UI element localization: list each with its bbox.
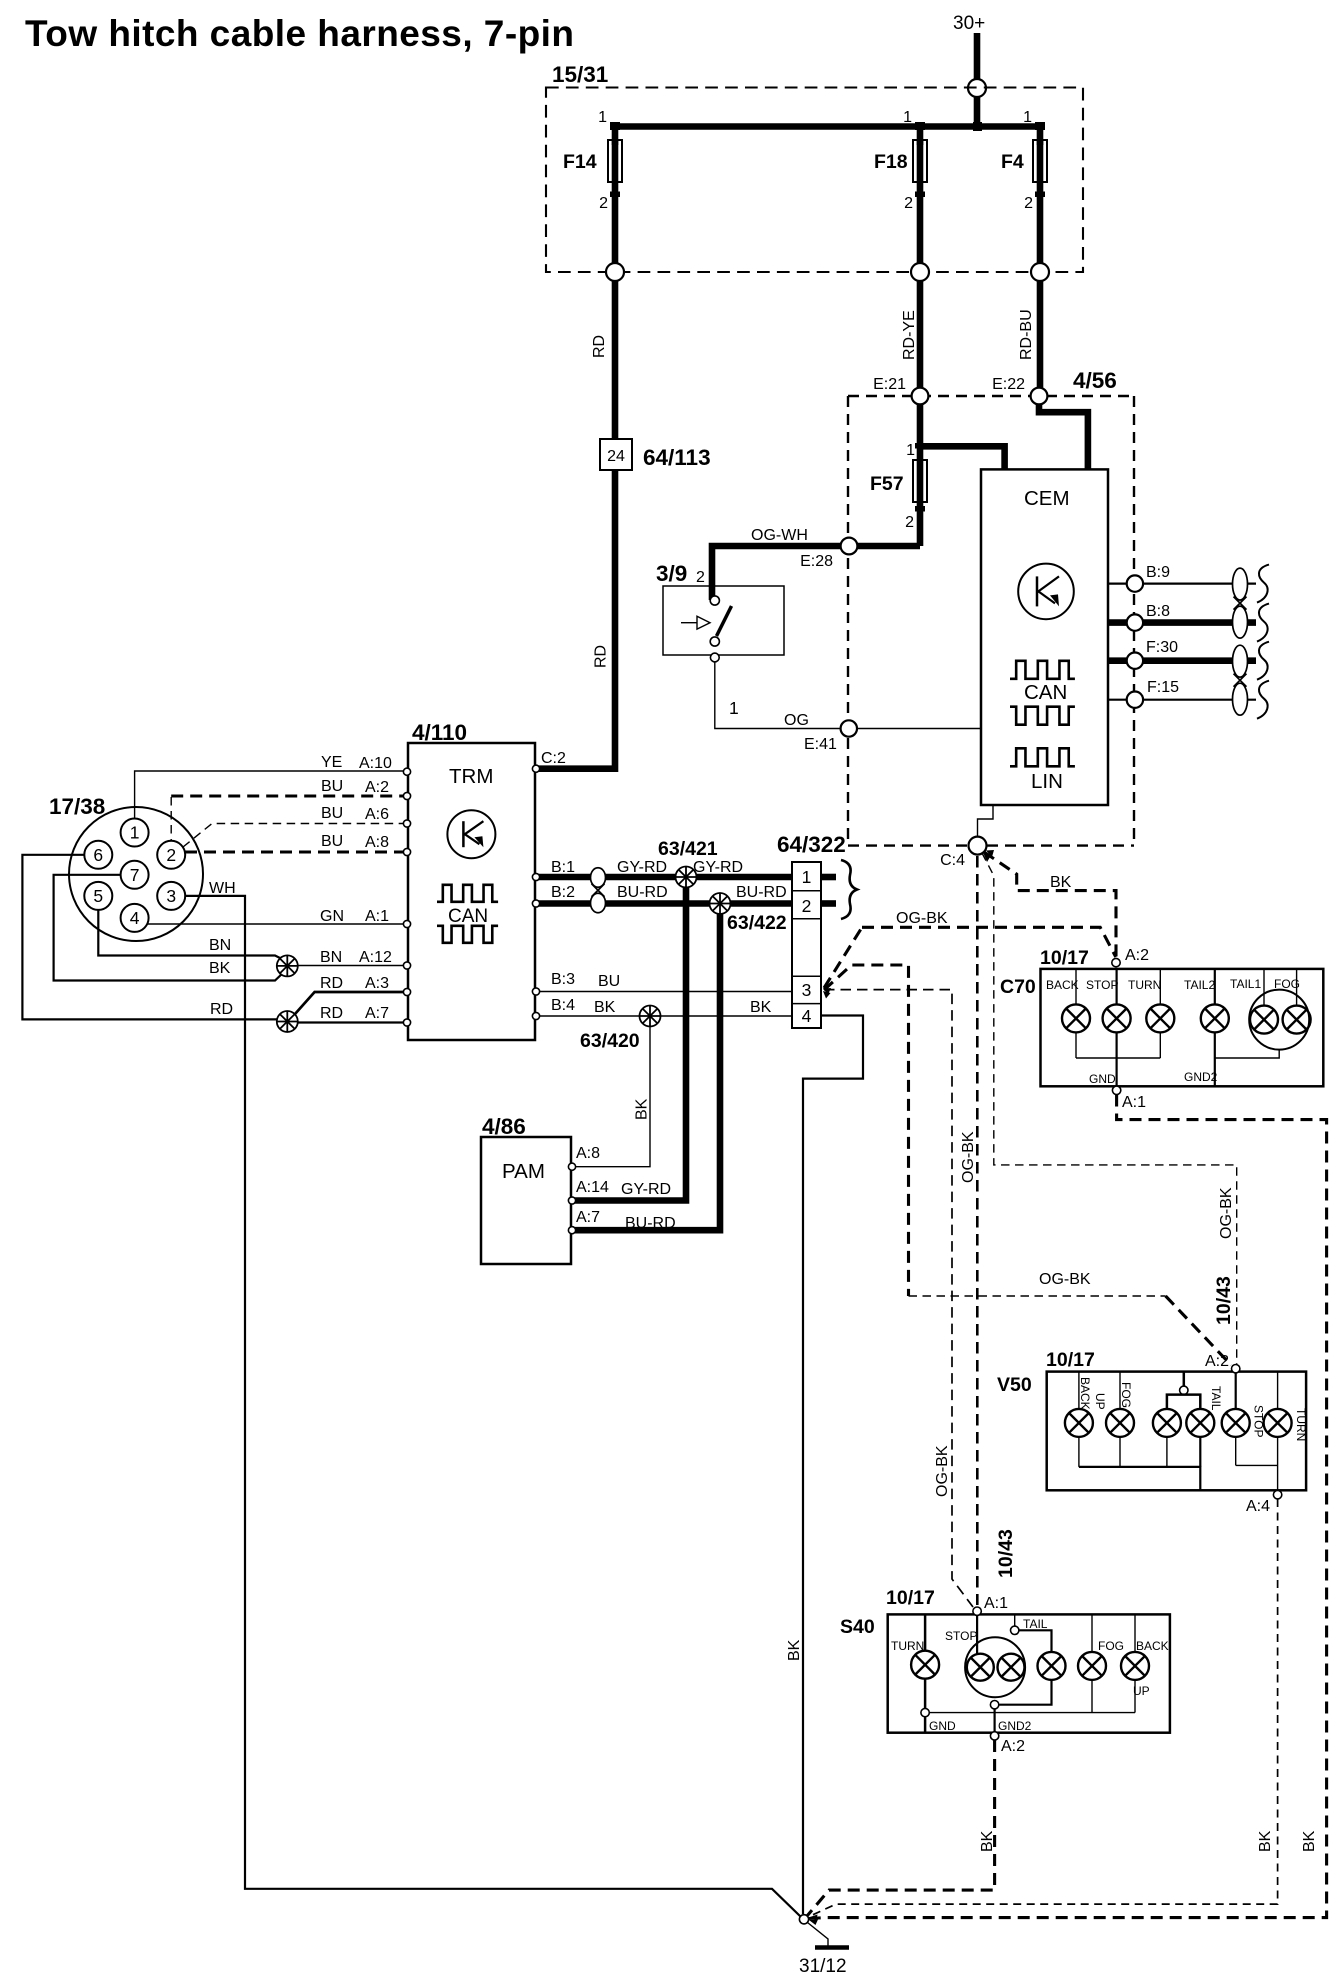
connector 17/38 pin 6 xyxy=(84,841,112,869)
svg-text:1: 1 xyxy=(903,109,912,126)
svg-text:A:8: A:8 xyxy=(365,834,389,851)
junction dot 30+ bus xyxy=(973,122,982,131)
wire RD-YE from F18 xyxy=(917,281,924,396)
svg-text:15/31: 15/31 xyxy=(552,62,608,87)
wire BU B:3 xyxy=(538,991,792,993)
V50 TAIL lamp left xyxy=(1153,1409,1181,1437)
svg-text:B:4: B:4 xyxy=(551,997,575,1014)
svg-text:B:1: B:1 xyxy=(551,859,575,876)
svg-text:RD-BU: RD-BU xyxy=(1018,309,1035,360)
connector 17/38 pin 5 xyxy=(84,882,112,910)
svg-text:GND2: GND2 xyxy=(1184,1070,1218,1084)
C70 dual lamp housing xyxy=(1249,990,1309,1050)
svg-text:OG: OG xyxy=(784,712,809,729)
svg-text:2: 2 xyxy=(696,569,705,586)
wire BN from pin5 xyxy=(98,910,284,960)
svg-text:10/17: 10/17 xyxy=(1046,1349,1095,1371)
fuse F14 pin 1 tick xyxy=(610,122,620,130)
ground junction node xyxy=(799,1915,808,1924)
wire RD-BU from F4 xyxy=(1037,281,1044,396)
S40 TURN lamp xyxy=(911,1651,939,1679)
break symbol B:8 xyxy=(1257,604,1269,642)
C70 TURN lamp lower wire xyxy=(1159,1032,1161,1058)
connector 64/113 box xyxy=(600,439,632,470)
node E:41 xyxy=(841,720,857,736)
svg-text:STOP: STOP xyxy=(945,1629,977,1643)
svg-text:Tow hitch cable harness, 7-pin: Tow hitch cable harness, 7-pin xyxy=(25,13,574,54)
pin C70 A:2 xyxy=(1112,958,1120,966)
node B:8 xyxy=(1127,614,1143,630)
S40 FOG lower wire xyxy=(1091,1680,1093,1713)
pin S40 A:2 xyxy=(990,1732,998,1740)
V50 STOP-TURN join xyxy=(1236,1464,1278,1466)
splice 63/422 xyxy=(710,893,731,914)
arrowheads at ground junction xyxy=(809,1915,818,1921)
C70 TAIL2 GND2 wire xyxy=(1214,1032,1216,1086)
wire RD from 64/113 to TRM C:2 xyxy=(537,470,615,769)
node F18 at 15/31 box bottom xyxy=(911,263,929,281)
wire RD-BU to CEM top xyxy=(1039,404,1088,469)
TRM CAN symbol xyxy=(437,885,498,902)
V50 STOP lower wire xyxy=(1235,1437,1237,1466)
svg-text:F:30: F:30 xyxy=(1146,639,1178,656)
wire BK 63/420 to PAM A:8 xyxy=(573,1027,650,1167)
wire BU to A:8 dashed xyxy=(185,850,405,853)
wire pin3 to S40 A:1 dashed xyxy=(824,990,973,1607)
connector 17/38 pin 3 xyxy=(157,882,185,910)
svg-text:BU-RD: BU-RD xyxy=(625,1215,676,1232)
wire BK B:4 xyxy=(538,1015,792,1017)
V50 TURN lamp xyxy=(1264,1409,1292,1437)
svg-text:3: 3 xyxy=(802,980,812,1000)
break symbol F:30 xyxy=(1257,642,1269,680)
module CEM box xyxy=(981,469,1108,805)
svg-text:F:15: F:15 xyxy=(1147,679,1179,696)
fuse F14 feed wire xyxy=(612,127,619,146)
C70 TURN lamp xyxy=(1146,1004,1174,1032)
pin TRM A:12 xyxy=(403,962,410,969)
splice RD xyxy=(277,1011,298,1032)
svg-text:BK: BK xyxy=(750,999,772,1016)
svg-text:RD: RD xyxy=(320,1005,343,1022)
C70 TAIL1 lamp xyxy=(1250,1006,1278,1034)
C70 TAIL2 lamp wire xyxy=(1214,969,1216,1005)
node 30+ at box 15/31 edge xyxy=(968,79,986,97)
svg-text:TRM: TRM xyxy=(449,765,493,788)
wire BU-RD pin2 tail xyxy=(821,900,836,907)
svg-text:GND2: GND2 xyxy=(998,1719,1032,1733)
svg-text:B:9: B:9 xyxy=(1146,564,1170,581)
svg-text:OG-BK: OG-BK xyxy=(1039,1271,1091,1288)
wire OG-WH xyxy=(712,546,920,600)
S40 STOP housing xyxy=(965,1637,1025,1697)
S40 GND wire to edge xyxy=(924,1717,927,1733)
svg-text:TURN: TURN xyxy=(1128,978,1161,992)
wire BU to A:2 dashed xyxy=(171,794,404,797)
switch 3/9 pin 2 contact xyxy=(710,596,719,605)
switch 3/9 box xyxy=(663,586,784,655)
S40 TAIL lower wire xyxy=(1000,1680,1052,1705)
connector 17/38 pin 7 xyxy=(121,861,149,889)
pin V50 A:2 xyxy=(1232,1365,1240,1373)
svg-text:OG-WH: OG-WH xyxy=(751,527,808,544)
svg-text:BU: BU xyxy=(321,778,343,795)
svg-text:10/43: 10/43 xyxy=(995,1529,1017,1578)
svg-text:BK: BK xyxy=(634,1098,651,1120)
V50 FOG lamp xyxy=(1106,1409,1134,1437)
svg-text:FOG: FOG xyxy=(1098,1639,1124,1653)
svg-text:WH: WH xyxy=(209,880,236,897)
connector 17/38 outline xyxy=(69,807,203,941)
wire CEM F:30 xyxy=(1108,657,1256,664)
svg-text:A:2: A:2 xyxy=(1125,947,1149,964)
svg-text:63/421: 63/421 xyxy=(658,838,718,860)
wire OG from switch pin 1 xyxy=(715,662,841,729)
svg-text:2: 2 xyxy=(599,195,608,212)
svg-text:BN: BN xyxy=(209,937,231,954)
S40 TURN lower wire xyxy=(924,1679,927,1709)
svg-text:TAIL1: TAIL1 xyxy=(1230,977,1261,991)
S40 BACKUP lamp wire xyxy=(1134,1614,1136,1652)
V50 GND bus xyxy=(1079,1467,1200,1490)
svg-text:OG-BK: OG-BK xyxy=(960,1131,977,1183)
svg-text:10/17: 10/17 xyxy=(1040,947,1089,969)
wire pin4 64/322 BK path xyxy=(803,1016,863,1915)
splice 63/420 xyxy=(640,1006,661,1027)
TRM transistor symbol xyxy=(447,810,495,858)
C70 STOP lamp xyxy=(1103,1004,1131,1032)
wire GY-RD 63/421 to PAM A:14 xyxy=(573,888,686,1201)
wire BU-RD B:2 xyxy=(538,900,792,907)
svg-text:4/56: 4/56 xyxy=(1073,368,1117,393)
svg-text:BK: BK xyxy=(1301,1830,1318,1852)
wire RD from F14 xyxy=(612,281,619,439)
svg-text:E:21: E:21 xyxy=(873,376,906,393)
svg-text:F18: F18 xyxy=(874,151,908,173)
svg-text:A:6: A:6 xyxy=(365,806,389,823)
svg-text:GY-RD: GY-RD xyxy=(621,1181,671,1198)
wire BU-RD 63/422 to PAM A:7 xyxy=(573,914,720,1230)
node F:30 xyxy=(1127,653,1143,669)
pin V50 A:4 xyxy=(1273,1491,1281,1499)
svg-text:63/422: 63/422 xyxy=(727,912,787,934)
svg-text:31/12: 31/12 xyxy=(799,1956,847,1977)
node B:9 xyxy=(1127,575,1143,591)
svg-text:3/9: 3/9 xyxy=(656,561,687,586)
svg-text:E:41: E:41 xyxy=(804,736,837,753)
wire OG from E:41 to CEM xyxy=(857,728,981,730)
wire GY-RD pin1 tail xyxy=(821,874,836,881)
switch 3/9 lower contact xyxy=(710,637,719,646)
svg-text:S40: S40 xyxy=(840,1616,875,1638)
svg-text:24: 24 xyxy=(607,448,625,465)
fuse F4 wire through xyxy=(1037,140,1044,272)
svg-text:F4: F4 xyxy=(1001,151,1024,173)
V50 BACKUP lamp xyxy=(1065,1409,1093,1437)
svg-text:BK: BK xyxy=(209,960,231,977)
svg-text:BU-RD: BU-RD xyxy=(617,884,668,901)
S40 BACKUP lamp xyxy=(1121,1652,1149,1680)
wire OG-BK pin3 to C70 A:2 dashed xyxy=(824,927,862,988)
svg-text:5: 5 xyxy=(93,886,103,906)
svg-text:2: 2 xyxy=(1024,195,1033,212)
pin TRM A:6 xyxy=(403,820,410,827)
svg-text:BK: BK xyxy=(1050,874,1072,891)
pin PAM A:7 xyxy=(568,1227,575,1234)
connector 17/38 pin 2 xyxy=(157,841,185,869)
svg-text:A:1: A:1 xyxy=(365,908,389,925)
fuse F18 pin 1 tick xyxy=(915,122,925,130)
svg-text:63/420: 63/420 xyxy=(580,1030,640,1052)
svg-text:BACK: BACK xyxy=(1136,1639,1169,1653)
svg-text:B:2: B:2 xyxy=(551,884,575,901)
svg-text:6: 6 xyxy=(93,845,103,865)
svg-text:A:14: A:14 xyxy=(576,1179,609,1196)
S40 GND bus xyxy=(929,1712,1135,1714)
svg-text:UP: UP xyxy=(1093,1393,1107,1410)
break symbol B:9 xyxy=(1257,565,1269,603)
svg-text:A:2: A:2 xyxy=(1205,1353,1229,1370)
svg-text:C:2: C:2 xyxy=(541,750,566,767)
V50 TAIL bracket xyxy=(1167,1395,1200,1409)
fuse F57 xyxy=(913,460,927,502)
wire RD from pin6 xyxy=(22,855,277,1020)
V50 TAIL bracket wire xyxy=(1183,1372,1186,1387)
fuse F57 pin 1 tick xyxy=(915,443,925,449)
wire CEM B:9 xyxy=(1108,582,1256,584)
svg-text:TAIL: TAIL xyxy=(1209,1386,1223,1411)
svg-text:10/43: 10/43 xyxy=(1213,1276,1235,1325)
fuse F4 feed wire xyxy=(1037,127,1044,146)
svg-text:1: 1 xyxy=(130,823,140,843)
V50 STOP lamp xyxy=(1222,1409,1250,1437)
CEM transistor symbol xyxy=(1018,564,1074,620)
svg-text:GND: GND xyxy=(1089,1072,1116,1086)
svg-text:BN: BN xyxy=(320,949,342,966)
twisted pair marker F:30/F:15 xyxy=(1233,645,1248,715)
C70 TAIL2 lamp xyxy=(1201,1004,1229,1032)
svg-text:BK: BK xyxy=(1257,1830,1274,1852)
svg-text:E:22: E:22 xyxy=(992,376,1025,393)
svg-text:GY-RD: GY-RD xyxy=(693,859,743,876)
V50 TAIL right lower wire xyxy=(1199,1437,1201,1467)
module box 4/110 TRM xyxy=(408,743,535,1040)
pin PAM A:14 xyxy=(568,1197,575,1204)
pin TRM A:1 xyxy=(403,920,410,927)
wire GN pin4 to A:1 xyxy=(147,923,405,925)
svg-text:A:2: A:2 xyxy=(365,779,389,796)
S40 TAIL jog xyxy=(1019,1630,1052,1652)
wire C:4 to S40 A:1 dashed xyxy=(976,856,979,1605)
svg-text:C70: C70 xyxy=(1000,976,1036,998)
svg-text:A:1: A:1 xyxy=(984,1595,1008,1612)
pin S40 A:1 xyxy=(973,1607,981,1615)
wire BK V50 A:4 to ground dashed xyxy=(808,1499,1278,1917)
C70 STOP GND wire xyxy=(1115,1032,1117,1086)
pin C70 A:1 xyxy=(1112,1086,1120,1094)
svg-text:A:2: A:2 xyxy=(1001,1738,1025,1755)
svg-text:4/86: 4/86 xyxy=(482,1114,526,1139)
switch 3/9 actuator arrow xyxy=(681,622,697,624)
svg-text:3: 3 xyxy=(166,886,176,906)
wire BU pin2 riser dashed xyxy=(170,797,172,841)
svg-text:OG-BK: OG-BK xyxy=(896,910,948,927)
svg-text:PAM: PAM xyxy=(502,1160,545,1183)
V50 TAIL bracket node xyxy=(1180,1386,1188,1394)
pin TRM A:3 xyxy=(403,988,410,995)
arrowheads at pin3 xyxy=(823,988,831,995)
svg-text:A:7: A:7 xyxy=(576,1209,600,1226)
pin TRM A:2 xyxy=(403,792,410,799)
fuse F18 pin 2 tick xyxy=(915,192,925,198)
pin TRM B:1 xyxy=(532,873,539,880)
svg-text:A:3: A:3 xyxy=(365,975,389,992)
svg-text:7: 7 xyxy=(130,865,140,885)
C70 BACK lamp wire xyxy=(1075,969,1077,1005)
svg-text:BK: BK xyxy=(594,999,616,1016)
CEM LIN symbol xyxy=(1010,748,1075,766)
svg-text:2: 2 xyxy=(166,845,176,865)
fuse F18 wire through xyxy=(917,140,924,272)
svg-text:A:12: A:12 xyxy=(359,949,392,966)
svg-text:1: 1 xyxy=(1023,109,1032,126)
svg-text:2: 2 xyxy=(904,195,913,212)
svg-text:OG-BK: OG-BK xyxy=(934,1445,951,1497)
svg-text:BU: BU xyxy=(321,805,343,822)
arrowheads at C:4 xyxy=(984,854,992,863)
svg-text:LIN: LIN xyxy=(1031,770,1063,793)
svg-text:TURN: TURN xyxy=(1294,1408,1308,1441)
C70 BACK lamp lower wire xyxy=(1075,1032,1077,1058)
svg-text:2: 2 xyxy=(905,514,914,531)
svg-text:V50: V50 xyxy=(997,1374,1032,1396)
lamp cluster S40 box xyxy=(888,1614,1170,1732)
wire BU to A:6 dashed xyxy=(183,824,405,848)
V50 TAIL left lower wire xyxy=(1166,1437,1168,1467)
svg-text:GN: GN xyxy=(320,908,344,925)
svg-text:E:28: E:28 xyxy=(800,553,833,570)
svg-text:RD-YE: RD-YE xyxy=(901,310,918,360)
S40 BACKUP lower wire xyxy=(1134,1680,1136,1713)
svg-text:CAN: CAN xyxy=(1024,681,1067,704)
svg-text:TAIL: TAIL xyxy=(1023,1617,1048,1631)
S40 TAIL lamp xyxy=(1038,1652,1066,1680)
svg-text:4/110: 4/110 xyxy=(412,720,467,745)
V50 FOG lamp lower wire xyxy=(1119,1437,1121,1467)
C70 BACK lamp xyxy=(1062,1004,1090,1032)
wire RD splice to A:3 xyxy=(295,992,405,1014)
svg-text:BACK: BACK xyxy=(1046,978,1079,992)
S40 FOG lamp wire xyxy=(1091,1614,1093,1652)
pin TRM B:3 xyxy=(532,988,539,995)
wire CEM F:15 xyxy=(1108,699,1256,701)
fuse F14 xyxy=(608,140,622,182)
S40 STOP lamp left xyxy=(967,1654,994,1681)
C70 FOG lamp xyxy=(1283,1006,1311,1034)
fuse F14 pin 2 tick xyxy=(610,192,620,198)
svg-text:STOP: STOP xyxy=(1086,978,1118,992)
svg-text:TAIL2: TAIL2 xyxy=(1184,978,1215,992)
svg-text:1: 1 xyxy=(906,442,915,459)
node E:22 xyxy=(1031,388,1048,405)
S40 TAIL wire xyxy=(1014,1614,1016,1626)
switch 3/9 pin 1 contact xyxy=(710,653,719,662)
pin TRM B:2 xyxy=(532,900,539,907)
twisted pair marker B:9/B:8 xyxy=(1233,568,1248,638)
node F14 at 15/31 box bottom xyxy=(606,263,624,281)
pin TRM B:4 xyxy=(532,1012,539,1019)
svg-text:A:7: A:7 xyxy=(365,1005,389,1022)
fuse box 15/31 dashed outline xyxy=(546,88,1083,273)
splice 63/421 xyxy=(676,867,697,888)
module box 4/86 PAM xyxy=(481,1137,571,1264)
wire GY-RD B:1 xyxy=(538,874,792,881)
CEM CAN symbol xyxy=(1010,661,1075,679)
connector 17/38 pin 4 xyxy=(121,904,149,932)
svg-text:64/113: 64/113 xyxy=(643,445,711,470)
V50 TURN lower wire xyxy=(1277,1437,1279,1490)
svg-text:RD: RD xyxy=(210,1001,233,1018)
svg-text:F57: F57 xyxy=(870,473,904,495)
S40 STOP bottom node xyxy=(990,1701,998,1709)
svg-text:YE: YE xyxy=(321,754,342,771)
svg-text:4: 4 xyxy=(802,1006,812,1026)
S40 GND node xyxy=(921,1708,929,1716)
svg-text:FOG: FOG xyxy=(1119,1382,1133,1408)
svg-text:BU: BU xyxy=(321,833,343,850)
C70 BACK-TURN join wire xyxy=(1076,1057,1160,1059)
S40 TURN lamp wire xyxy=(924,1614,927,1650)
svg-text:17/38: 17/38 xyxy=(49,794,105,819)
svg-text:4: 4 xyxy=(130,908,140,928)
svg-text:64/322: 64/322 xyxy=(777,832,846,857)
break symbol F:15 xyxy=(1257,681,1269,719)
wire BK S40 A:2 to ground dashed xyxy=(807,1740,995,1916)
svg-text:RD: RD xyxy=(320,975,343,992)
fuse F18 feed wire xyxy=(917,127,924,146)
connector 64/322 strip xyxy=(792,862,821,1028)
svg-text:F14: F14 xyxy=(563,151,597,173)
S40 STOP feed wire xyxy=(976,1615,978,1653)
svg-text:2: 2 xyxy=(802,896,812,916)
C70 TURN lamp wire xyxy=(1159,969,1161,1005)
wire C:4 to V50 A:2 dashed xyxy=(982,853,1237,1364)
S40 STOP lamp right xyxy=(998,1654,1025,1681)
svg-text:CAN: CAN xyxy=(448,906,488,927)
V50 TAIL lamp right xyxy=(1186,1409,1214,1437)
pin TRM A:7 xyxy=(403,1019,410,1026)
svg-text:BU-RD: BU-RD xyxy=(736,884,787,901)
wire BK C:4 to C70 A:2 dashed xyxy=(984,852,1116,957)
wire CEM to C:4 xyxy=(978,805,994,837)
V50 STOP lamp wire xyxy=(1235,1373,1237,1409)
svg-text:GY-RD: GY-RD xyxy=(617,859,667,876)
fuse F18 xyxy=(913,140,927,182)
svg-text:RD: RD xyxy=(591,335,608,358)
wire 30+ vertical xyxy=(974,33,981,127)
wire BK C70 A:1 to ground dashed xyxy=(807,1095,1327,1919)
splice BN/BK xyxy=(277,955,298,976)
svg-text:BK: BK xyxy=(786,1639,803,1661)
lamp cluster C70 box xyxy=(1041,969,1324,1086)
wire WH from pin3 xyxy=(185,896,801,1917)
svg-text:30+: 30+ xyxy=(953,13,985,34)
S40 TAIL node xyxy=(1011,1626,1019,1634)
svg-text:1: 1 xyxy=(598,109,607,126)
wire BK from pin7 xyxy=(54,875,284,981)
wire CEM B:8 xyxy=(1108,619,1256,626)
svg-text:B:3: B:3 xyxy=(551,971,575,988)
